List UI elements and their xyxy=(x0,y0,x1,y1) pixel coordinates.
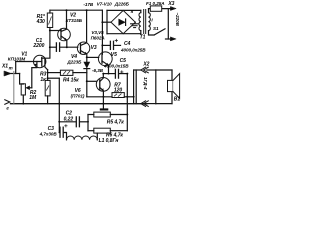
svg-text:II: II xyxy=(131,9,134,14)
svg-text:Т1: Т1 xyxy=(140,35,146,41)
svg-text:4000,0x15В: 4000,0x15В xyxy=(103,63,129,68)
svg-text:1ГД-4: 1ГД-4 xyxy=(143,77,148,90)
svg-text:Д223Б: Д223Б xyxy=(66,59,82,64)
svg-text:430: 430 xyxy=(36,19,45,25)
svg-text:Х1: Х1 xyxy=(1,64,8,70)
svg-text:V3,V5: V3,V5 xyxy=(91,30,104,35)
svg-text:V7-V10: V7-V10 xyxy=(97,1,113,6)
svg-text:R5 4,7к: R5 4,7к xyxy=(107,119,124,125)
svg-text:S1: S1 xyxy=(153,26,159,31)
svg-text:-17В: -17В xyxy=(83,2,93,7)
svg-text:4,7x30В: 4,7x30В xyxy=(39,132,58,137)
svg-text:КТ315Б: КТ315Б xyxy=(66,18,83,23)
svg-text:R4 15к: R4 15к xyxy=(63,78,79,84)
svg-text:(П701): (П701) xyxy=(71,93,85,98)
svg-text:4000,0x25В: 4000,0x25В xyxy=(120,48,146,53)
svg-text:П602А: П602А xyxy=(91,35,105,40)
svg-text:Д226Б: Д226Б xyxy=(114,1,130,6)
svg-text:1к: 1к xyxy=(40,77,46,83)
svg-text:I: I xyxy=(151,18,153,23)
svg-text:В1: В1 xyxy=(174,97,181,103)
svg-text:г: г xyxy=(6,106,9,111)
svg-text:2200: 2200 xyxy=(32,43,44,49)
svg-text:F1 0,25А: F1 0,25А xyxy=(146,1,165,6)
svg-text:120: 120 xyxy=(114,87,122,93)
svg-text:V3: V3 xyxy=(91,45,97,51)
svg-text:L1 0,8Гн: L1 0,8Гн xyxy=(99,138,119,144)
svg-text:1М: 1М xyxy=(29,95,37,101)
svg-text:C4: C4 xyxy=(124,41,131,47)
svg-text:-6,3В: -6,3В xyxy=(92,68,104,73)
svg-text:~220В: ~220В xyxy=(175,13,180,27)
svg-text:Х2: Х2 xyxy=(142,62,149,68)
svg-text:т: т xyxy=(9,65,13,70)
svg-text:0,22: 0,22 xyxy=(64,116,74,122)
svg-text:Х3: Х3 xyxy=(167,1,174,7)
svg-text:КП103М: КП103М xyxy=(8,57,26,62)
svg-text:V5: V5 xyxy=(111,52,117,58)
